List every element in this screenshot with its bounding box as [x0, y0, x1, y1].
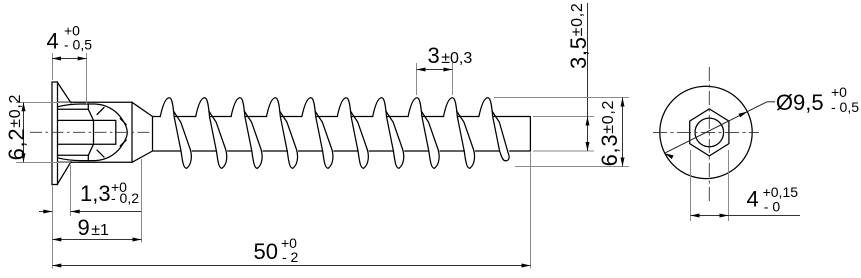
svg-text:4: 4 — [47, 29, 59, 54]
svg-text:1,3: 1,3 — [80, 181, 111, 206]
svg-text:- 2: - 2 — [282, 249, 299, 265]
svg-text:- 0: - 0 — [764, 199, 781, 215]
svg-text:50: 50 — [254, 239, 278, 264]
svg-text:- 0,2: - 0,2 — [111, 190, 139, 206]
svg-text:3±0,3: 3±0,3 — [428, 43, 473, 68]
svg-text:+0: +0 — [831, 84, 847, 100]
svg-text:6,2±0,2: 6,2±0,2 — [4, 94, 29, 161]
svg-text:6,3±0,2: 6,3±0,2 — [597, 100, 622, 167]
svg-text:4: 4 — [747, 187, 759, 212]
svg-text:Ø9,5: Ø9,5 — [776, 90, 824, 115]
svg-text:- 0,5: - 0,5 — [831, 99, 859, 115]
svg-text:9±1: 9±1 — [78, 215, 110, 240]
svg-text:- 0,5: - 0,5 — [64, 37, 92, 53]
